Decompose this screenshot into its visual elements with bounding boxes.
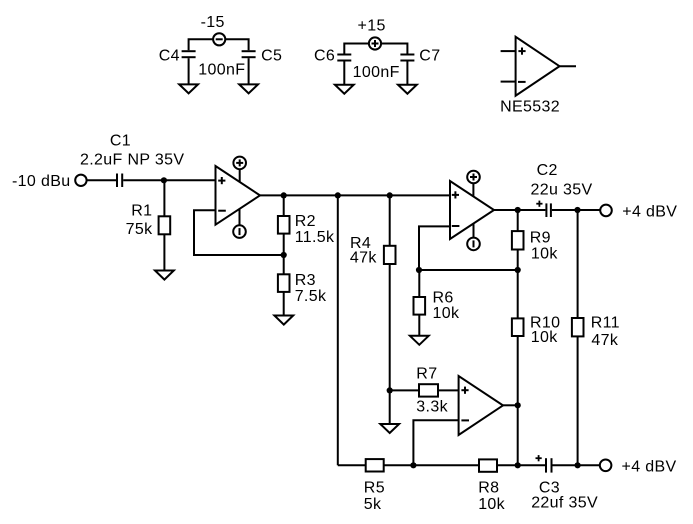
wire R10 to bottom rail bbox=[517, 336, 519, 465]
wire R9 to R10 bbox=[517, 250, 519, 319]
node U2a output bbox=[515, 402, 521, 408]
ground (R1) bbox=[155, 271, 174, 280]
svg-text:C7: C7 bbox=[419, 47, 440, 64]
node U1b output / R9 bbox=[515, 207, 521, 213]
ground (C7) bbox=[398, 85, 417, 94]
svg-text:R5: R5 bbox=[364, 480, 385, 497]
resistor R9 bbox=[512, 231, 524, 249]
svg-text:10k: 10k bbox=[478, 496, 505, 513]
wire C2 to output terminal bbox=[552, 209, 600, 211]
capacitor C6 bbox=[337, 55, 351, 61]
ground (C5) bbox=[239, 84, 258, 93]
wire R3 to ground bbox=[283, 292, 285, 315]
resistor R6 bbox=[414, 297, 426, 315]
svg-text:C5: C5 bbox=[261, 47, 282, 64]
ground (C6) bbox=[335, 85, 354, 94]
wire U1b output to C2 bbox=[494, 209, 545, 211]
node rail/R4 bbox=[387, 192, 393, 198]
power pin V+ (U1a) bbox=[233, 157, 246, 170]
wire C5 to ground bbox=[248, 58, 250, 84]
wire C4 to ground bbox=[188, 58, 190, 84]
ground (R4/R7 node) bbox=[380, 424, 399, 433]
power pin V- (U1a) bbox=[233, 225, 246, 238]
wire node to R1 bbox=[163, 180, 165, 216]
wire bottom rail left + R5 lead bbox=[338, 464, 366, 466]
svg-text:C1: C1 bbox=[110, 133, 131, 150]
svg-text:R7: R7 bbox=[416, 365, 437, 382]
svg-text:22uf 35V: 22uf 35V bbox=[531, 495, 598, 512]
svg-text:+4 dBV: +4 dBV bbox=[622, 203, 677, 220]
op-amp U1b bbox=[450, 181, 494, 239]
resistor R4 bbox=[384, 246, 396, 264]
svg-text:+4 dBV: +4 dBV bbox=[622, 459, 677, 476]
wire R4 to ground / R7 junction bbox=[389, 264, 391, 424]
svg-text:C2: C2 bbox=[537, 162, 558, 179]
svg-text:R11: R11 bbox=[591, 314, 620, 331]
power pin V+ (U1b) bbox=[467, 171, 480, 184]
node rail/R2 bbox=[281, 192, 287, 198]
wire C7 to ground bbox=[406, 62, 408, 85]
wire U1a V+ stem bbox=[239, 166, 241, 183]
resistor R7 bbox=[419, 384, 438, 396]
wire U1b V- stem bbox=[473, 224, 475, 244]
op-amp NE5532 symbol bbox=[516, 37, 560, 96]
wire R1 to ground bbox=[163, 234, 165, 270]
wire rail to R2 bbox=[283, 195, 285, 216]
output terminal +4 dBV (hot) bbox=[600, 205, 612, 217]
wire C1 to U1a +input bbox=[123, 179, 215, 181]
wire U2a -input to bottom rail bbox=[413, 420, 458, 465]
wire R11 to bottom rail bbox=[577, 336, 579, 465]
resistor R5 bbox=[366, 459, 384, 471]
wire long branch rail to bottom rail bbox=[337, 195, 339, 465]
input terminal -10 dBu bbox=[75, 175, 86, 186]
wire node to R6 bbox=[418, 270, 420, 297]
wire U2a output bbox=[503, 404, 518, 406]
power terminal +15 bbox=[369, 37, 381, 49]
svg-text:R8: R8 bbox=[478, 480, 499, 497]
wire C3 to output terminal bbox=[553, 464, 600, 466]
wire R8 to C3 bbox=[497, 464, 545, 466]
svg-text:2.2uF NP 35V: 2.2uF NP 35V bbox=[80, 152, 184, 169]
svg-text:11.5k: 11.5k bbox=[295, 229, 335, 246]
wire C6 to ground bbox=[343, 62, 345, 85]
op-amp U2a bbox=[459, 376, 503, 435]
svg-text:R2: R2 bbox=[295, 213, 316, 230]
svg-text:3.3k: 3.3k bbox=[416, 399, 448, 416]
capacitor C7 bbox=[400, 55, 414, 61]
output terminal +4 dBV (cold) bbox=[600, 460, 612, 472]
capacitor C5 bbox=[242, 51, 256, 57]
wire NE5532 output stub bbox=[560, 65, 577, 67]
wire NE5532 +input stub bbox=[501, 50, 516, 52]
svg-text:10k: 10k bbox=[433, 305, 460, 322]
capacitor C4 bbox=[182, 51, 196, 57]
svg-text:R1: R1 bbox=[131, 203, 152, 220]
resistor R3 bbox=[278, 274, 290, 292]
wire R11 chain (x=577.6) bbox=[577, 210, 579, 318]
resistor R2 bbox=[278, 216, 290, 234]
wire +15 rail bbox=[344, 44, 407, 55]
svg-text:C4: C4 bbox=[159, 47, 180, 64]
wire U1a V- stem bbox=[239, 209, 241, 232]
resistor R10 bbox=[512, 318, 524, 336]
wire -15 rail bbox=[189, 39, 249, 50]
svg-text:C6: C6 bbox=[314, 47, 335, 64]
wire U1b -input to R6 node bbox=[419, 226, 450, 270]
svg-text:5k: 5k bbox=[364, 496, 382, 513]
power terminal -15 bbox=[213, 33, 225, 45]
node y270 / R9 line bbox=[515, 267, 521, 273]
power pin V- (U1b) bbox=[467, 238, 480, 251]
node R10 line / bottom rail bbox=[515, 462, 521, 468]
svg-text:22u 35V: 22u 35V bbox=[531, 181, 593, 198]
node input/R1 junction bbox=[161, 177, 167, 183]
wire R7 left bbox=[390, 389, 419, 391]
svg-text:75k: 75k bbox=[126, 221, 153, 238]
wire U1b V+ stem bbox=[472, 181, 474, 197]
wire R5 to R8 bbox=[384, 464, 479, 466]
svg-text:R6: R6 bbox=[433, 289, 454, 306]
svg-text:10k: 10k bbox=[531, 245, 558, 262]
node R2/R3/feedback bbox=[281, 252, 287, 258]
svg-text:NE5532: NE5532 bbox=[500, 99, 560, 116]
ground (R6) bbox=[410, 336, 429, 345]
svg-text:47k: 47k bbox=[591, 332, 618, 349]
wire main rail U1a output to U1b +input bbox=[260, 194, 450, 196]
ground (R3) bbox=[274, 316, 293, 325]
wire R6 to ground bbox=[418, 315, 420, 336]
node R4/R7 bbox=[387, 387, 393, 393]
node feedback/bottom rail bbox=[410, 462, 416, 468]
wire NE5532 -input stub bbox=[501, 81, 516, 83]
op-amp U1a bbox=[216, 166, 261, 225]
node rail/R5 branch bbox=[335, 192, 341, 198]
node R6 top bbox=[416, 267, 422, 273]
wire R2 to R3 bbox=[283, 234, 285, 275]
wire rail to R4 bbox=[389, 195, 391, 245]
svg-text:R9: R9 bbox=[530, 230, 551, 247]
resistor R11 bbox=[572, 318, 584, 336]
node R11 / bottom rail bbox=[575, 462, 581, 468]
capacitor C1 bbox=[117, 174, 122, 188]
svg-text:47k: 47k bbox=[350, 250, 377, 267]
capacitor C3 bbox=[536, 455, 552, 473]
wire U1a feedback loop bbox=[194, 210, 284, 255]
ground (C4) bbox=[179, 84, 198, 93]
svg-text:-10 dBu: -10 dBu bbox=[12, 173, 71, 190]
wire node to node (y=270) bbox=[419, 269, 518, 271]
wire input to C1 bbox=[87, 179, 116, 181]
svg-text:7.5k: 7.5k bbox=[295, 288, 327, 305]
wire R9 chain (x=517.7) bbox=[517, 210, 519, 231]
svg-text:+15: +15 bbox=[358, 18, 386, 35]
node C2/R11 bbox=[574, 207, 580, 213]
capacitor C2 bbox=[536, 201, 551, 217]
wire R7 to U2a +input bbox=[438, 389, 459, 391]
svg-text:R3: R3 bbox=[295, 272, 316, 289]
svg-text:10k: 10k bbox=[531, 329, 558, 346]
svg-text:-15: -15 bbox=[201, 14, 225, 31]
resistor R1 bbox=[159, 216, 171, 234]
svg-text:100nF: 100nF bbox=[198, 62, 245, 79]
resistor R8 bbox=[479, 459, 497, 471]
svg-text:100nF: 100nF bbox=[353, 64, 400, 81]
